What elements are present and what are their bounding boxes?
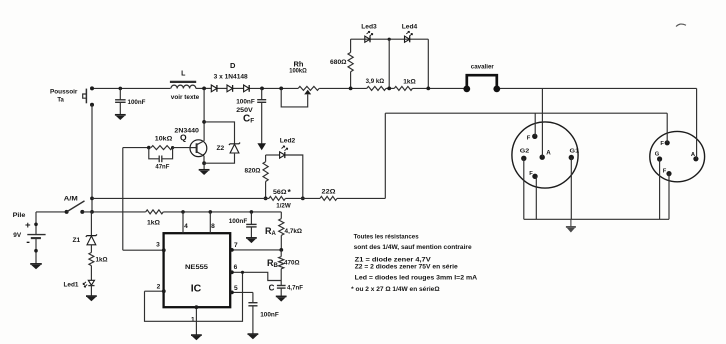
svg-text:voir texte: voir texte bbox=[171, 94, 200, 101]
svg-text:CF: CF bbox=[243, 114, 254, 125]
pushbutton Poussoir Ta bbox=[83, 86, 94, 106]
svg-text:F: F bbox=[529, 171, 533, 177]
node wrap/pin6 bbox=[241, 271, 244, 274]
zener Z2 loop wires bbox=[204, 122, 234, 136]
node pin7 bbox=[230, 248, 234, 252]
potentiometer Rh 100k bbox=[281, 86, 319, 107]
capacitor 100nF (pin8 bypass) bbox=[246, 212, 256, 238]
wire: filament bus to socket2 F bbox=[666, 113, 668, 143]
pin A (socket1) bbox=[540, 155, 545, 160]
pin 2 wire bbox=[145, 290, 164, 292]
LED Led3 bbox=[365, 31, 373, 42]
wire: switch to 555 supply rail bbox=[82, 211, 145, 213]
svg-text:Z2 = 2 diodes zener 75V en sér: Z2 = 2 diodes zener 75V en série bbox=[355, 264, 458, 271]
node 56/Led2 right bbox=[301, 197, 305, 201]
pin G1 (socket1) bbox=[569, 155, 574, 160]
svg-text:*: * bbox=[288, 187, 292, 197]
svg-text:100nF: 100nF bbox=[236, 98, 255, 105]
svg-text:100nF: 100nF bbox=[128, 99, 146, 106]
svg-text:cavalier: cavalier bbox=[471, 64, 494, 71]
svg-text:9V: 9V bbox=[13, 232, 22, 239]
wire: emitter to ground node bbox=[203, 156, 205, 163]
pin F bottom (socket1) bbox=[532, 174, 537, 179]
wire: battery to switch bbox=[36, 211, 67, 213]
ground (Led1) bbox=[86, 295, 97, 297]
node: Rh wiper loop junction bbox=[279, 87, 283, 91]
svg-text:F: F bbox=[663, 168, 667, 174]
ground (pin 1) bbox=[191, 334, 202, 336]
svg-text:22Ω: 22Ω bbox=[322, 189, 336, 196]
wire: base drive riser (to pin 3) bbox=[122, 148, 124, 251]
zener Z2 bbox=[229, 143, 240, 145]
svg-text:4: 4 bbox=[184, 223, 188, 230]
wire: LED right drop bbox=[427, 39, 429, 88]
pin 1 stub bbox=[195, 307, 197, 335]
node: LED mid top bbox=[388, 38, 391, 41]
wire: socket2 G down bbox=[659, 159, 661, 219]
node 680/3.9k bbox=[349, 87, 353, 91]
diode D1 (1N4148) bbox=[211, 85, 217, 92]
svg-text:Led = diodes led rouges 3mm I: Led = diodes led rouges 3mm I=2 mA bbox=[355, 274, 478, 281]
pin 5 wire bbox=[230, 291, 253, 293]
capacitor 100nF (input) bbox=[115, 87, 126, 115]
svg-text:100kΩ: 100kΩ bbox=[289, 68, 307, 75]
switch A/M bbox=[65, 201, 85, 214]
ground (pin8 bypass) bbox=[246, 237, 257, 239]
resistor 10k / cap 47nF base network bbox=[123, 146, 190, 163]
svg-text:100nF: 100nF bbox=[260, 312, 279, 319]
svg-text:680Ω: 680Ω bbox=[330, 59, 347, 66]
pin 3 wire bbox=[123, 249, 164, 251]
diode D3 (1N4148) bbox=[244, 85, 250, 92]
pin A (socket2) bbox=[693, 156, 698, 161]
svg-text:Led1: Led1 bbox=[64, 281, 79, 288]
svg-text:F: F bbox=[527, 135, 531, 141]
svg-text:Ta: Ta bbox=[57, 97, 64, 103]
svg-text:Q: Q bbox=[180, 132, 187, 142]
LED Led4 bbox=[405, 31, 413, 42]
node mid bbox=[387, 87, 391, 91]
diode D2 (1N4148) bbox=[227, 85, 233, 92]
wire: socket1 G2 down bbox=[523, 158, 525, 219]
svg-text:Z1: Z1 bbox=[72, 237, 80, 244]
tube socket 1 (noval, left) bbox=[512, 122, 578, 188]
svg-text:2: 2 bbox=[157, 284, 161, 291]
pin F top (socket1) bbox=[532, 134, 537, 139]
svg-text:-: - bbox=[26, 236, 30, 248]
pin 4 stub bbox=[182, 212, 184, 233]
zener Z1 branch bbox=[86, 212, 97, 280]
svg-text:D: D bbox=[230, 61, 236, 70]
svg-text:470Ω: 470Ω bbox=[284, 259, 300, 266]
svg-text:100nF: 100nF bbox=[229, 218, 248, 225]
stray pen mark (top right) bbox=[676, 24, 686, 26]
svg-text:4,7kΩ: 4,7kΩ bbox=[285, 228, 303, 235]
wire: 555 supply rail bbox=[163, 211, 281, 213]
svg-text:3 x 1N4148: 3 x 1N4148 bbox=[214, 74, 248, 81]
wire: pin2 to pin6 wrap bbox=[145, 272, 243, 321]
wire: filament bus to socket1 F bbox=[534, 113, 536, 136]
svg-text:Z1 = diode zener 4,7V: Z1 = diode zener 4,7V bbox=[355, 257, 431, 264]
svg-text:1kΩ: 1kΩ bbox=[96, 257, 108, 264]
transistor Q 2N3440 bbox=[190, 140, 207, 157]
svg-text:6: 6 bbox=[234, 264, 238, 271]
node pin1 bbox=[195, 305, 199, 309]
wire: collector riser bbox=[203, 88, 205, 140]
svg-text:47nF: 47nF bbox=[155, 164, 169, 171]
pin 7 wire bbox=[230, 249, 281, 251]
svg-text:820Ω: 820Ω bbox=[245, 168, 261, 175]
svg-text:IC: IC bbox=[191, 283, 202, 295]
junction node (return branch) bbox=[90, 197, 94, 201]
resistor 1k (parallel Led4) bbox=[394, 86, 412, 90]
pin G (socket2) bbox=[657, 156, 662, 161]
svg-text:Led3: Led3 bbox=[361, 24, 377, 31]
resistor 680 ohm (vertical) bbox=[348, 39, 353, 88]
jumper cavalier bbox=[463, 75, 500, 92]
wire: LED top branch bbox=[351, 38, 429, 40]
svg-text:sont des 1/4W, sauf mention co: sont des 1/4W, sauf mention contraire bbox=[354, 244, 472, 251]
svg-text:1/2W: 1/2W bbox=[276, 202, 291, 209]
node right bbox=[426, 87, 430, 91]
node 56/820 left bbox=[264, 197, 268, 201]
svg-text:5: 5 bbox=[234, 285, 238, 292]
svg-text:A: A bbox=[546, 150, 551, 157]
capacitor 100nF (pin5) bbox=[248, 292, 257, 334]
svg-text:NE555: NE555 bbox=[185, 264, 209, 271]
inductor L bbox=[170, 82, 196, 89]
svg-text:RB: RB bbox=[267, 258, 279, 269]
resistor 3,9k bbox=[367, 86, 386, 90]
node after diodes bbox=[260, 87, 264, 91]
wire: return riser to filament bus bbox=[384, 113, 386, 198]
svg-text:1kΩ: 1kΩ bbox=[403, 78, 416, 85]
resistor 22 ohm bbox=[320, 196, 337, 200]
wire: HT to socket2 anode bbox=[696, 88, 698, 158]
svg-text:+: + bbox=[25, 220, 31, 231]
ground (input cap) bbox=[115, 114, 126, 116]
wire: socket ground bus bbox=[524, 218, 669, 220]
svg-text:Poussoir: Poussoir bbox=[50, 89, 78, 96]
wire: LED mid divider bbox=[388, 39, 390, 88]
svg-text:2N3440: 2N3440 bbox=[174, 128, 199, 135]
svg-text:A/M: A/M bbox=[64, 196, 78, 203]
capacitor CF 100nF 250V with down arrow bbox=[257, 88, 266, 150]
svg-text:G: G bbox=[655, 152, 660, 158]
battery Pile 9V bbox=[27, 212, 45, 264]
pin F top (socket2) bbox=[665, 140, 670, 145]
pin F bottom (socket2) bbox=[666, 171, 671, 176]
wire: socket2 F bottom down bbox=[668, 174, 670, 220]
wire: pushbutton down to A/M node bbox=[91, 105, 93, 212]
node: emitter/Z2 bbox=[202, 161, 206, 165]
ground (socket bus) bbox=[566, 219, 576, 232]
pin 8 stub bbox=[209, 212, 211, 233]
notes text block bbox=[351, 234, 477, 293]
svg-text:Led4: Led4 bbox=[402, 24, 418, 31]
ground (emitter) bbox=[199, 163, 210, 175]
svg-text:G1: G1 bbox=[570, 149, 580, 155]
svg-text:4,7nF: 4,7nF bbox=[287, 284, 303, 291]
junction node (supply) bbox=[90, 210, 94, 214]
svg-text:F: F bbox=[660, 141, 664, 147]
node pin6 bbox=[230, 270, 234, 274]
wire: return bus (56/22 ohm line) bbox=[92, 197, 385, 199]
svg-text:1: 1 bbox=[191, 317, 195, 324]
node 100nF bypass bbox=[250, 210, 254, 214]
svg-text:L: L bbox=[181, 70, 186, 77]
node pin8 bbox=[209, 210, 213, 214]
IC NE555 box bbox=[164, 233, 231, 307]
node pin2 bbox=[162, 289, 166, 293]
resistor 1k (555 supply) bbox=[146, 210, 164, 214]
wire: filament bus bbox=[385, 112, 667, 114]
svg-text:7: 7 bbox=[234, 242, 238, 249]
node: collector branch junction bbox=[202, 87, 206, 91]
svg-text:56Ω: 56Ω bbox=[273, 189, 287, 196]
LED Led2 + 820 ohm loop bbox=[263, 146, 303, 199]
svg-text:RA: RA bbox=[265, 226, 277, 237]
svg-text:3: 3 bbox=[156, 241, 160, 248]
node pin3 bbox=[162, 248, 166, 252]
tube socket 2 (right) bbox=[650, 131, 705, 181]
svg-text:* ou 2 x 27 Ω 1/4W en sérieΩ: * ou 2 x 27 Ω 1/4W en sérieΩ bbox=[351, 286, 440, 293]
resistor RB 470 ohm bbox=[279, 250, 284, 285]
ground (battery) bbox=[30, 263, 42, 265]
pin G2 (socket1) bbox=[521, 156, 526, 161]
svg-text:8: 8 bbox=[211, 223, 215, 230]
wire: socket1 F bottom down bbox=[535, 176, 537, 219]
svg-text:C: C bbox=[269, 283, 275, 292]
node RA/RB/pin7 bbox=[279, 248, 283, 252]
ground (pin5 cap) bbox=[248, 333, 259, 335]
ground (C) bbox=[276, 295, 287, 297]
node: Z2 tap bbox=[202, 120, 206, 124]
resistor RA 4,7k bbox=[279, 212, 284, 250]
svg-text:Led2: Led2 bbox=[280, 138, 296, 145]
svg-text:3,9 kΩ: 3,9 kΩ bbox=[366, 78, 385, 85]
wire: HT to socket1 anode bbox=[541, 88, 543, 157]
svg-text:G2: G2 bbox=[520, 149, 530, 155]
svg-text:Pile: Pile bbox=[13, 212, 26, 219]
capacitor C 4,7nF bbox=[277, 286, 286, 297]
svg-text:Z2: Z2 bbox=[216, 145, 224, 152]
pin 6 wire (to RB/C junction) bbox=[230, 272, 281, 280]
node pin4 bbox=[181, 210, 185, 214]
svg-text:Toutes les résistances: Toutes les résistances bbox=[354, 234, 419, 241]
resistor 56 ohm 1/2W bbox=[269, 196, 285, 200]
wire: socket1 G1 down bbox=[570, 158, 572, 220]
svg-text:1kΩ: 1kΩ bbox=[147, 219, 160, 226]
svg-text:10kΩ: 10kΩ bbox=[155, 136, 173, 143]
wire: main HT bus (top horizontal) bbox=[92, 87, 697, 89]
node pin5 bbox=[230, 291, 234, 295]
LED Led1 bbox=[83, 280, 95, 296]
